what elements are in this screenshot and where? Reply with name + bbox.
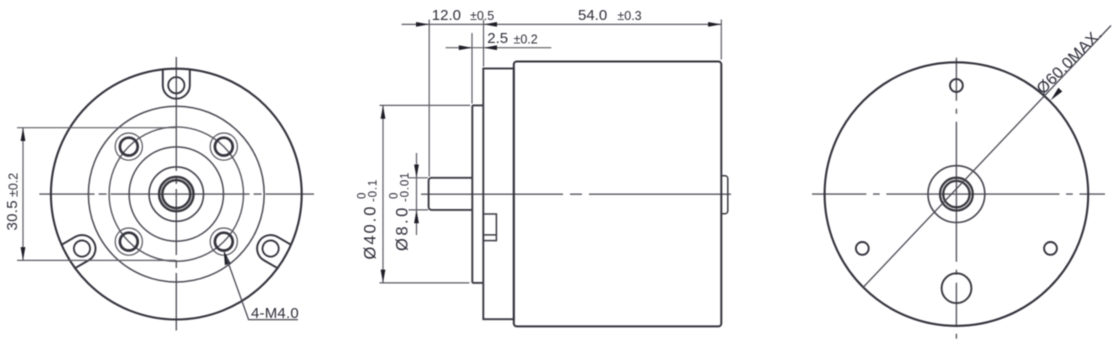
svg-text:4-M4.0: 4-M4.0 [251,305,299,322]
body rectangle [514,62,722,327]
dimension line 2.5 [446,47,552,49]
dimension 30.5 extension line top [17,127,176,129]
horizontal centerline [421,193,733,195]
shaft outer circle [159,177,193,211]
arrow down boss bottom [381,270,386,283]
svg-text:12.0: 12.0 [432,7,461,24]
shaft [429,178,473,210]
ext line boss top [380,104,471,106]
boss bottom edge [472,282,483,284]
rear hole lower-left [856,242,869,255]
top dimension line 12.0 / 54.0 [402,23,722,25]
rear bump [721,176,728,214]
svg-text:30.5: 30.5 [4,200,21,230]
label Ø8.0 0/-0.01 [389,172,412,251]
label 30.5 ±0.2 [4,173,21,231]
arrow left at flange face [484,22,497,27]
horizontal centerline [39,193,314,195]
rear big hole bottom [942,273,972,303]
Ø60 arrowhead [1051,88,1063,100]
arrow right at shaft tip [416,22,429,27]
arrow left at flange face 2.5 [484,45,497,50]
bolt circle [109,127,243,261]
arrow down [21,247,26,260]
body circle [88,106,264,282]
svg-text:-0.1: -0.1 [368,179,380,202]
svg-text:-0.01: -0.01 [400,172,412,202]
M4 hole bottom-right [210,228,237,255]
M4 hole bottom-left [115,228,142,255]
M4 hole top-right [210,133,237,160]
outer flange circle [51,69,302,320]
svg-text:Ø60.0MAX.: Ø60.0MAX. [1034,26,1106,98]
arrow right at body rear [708,22,721,27]
rear hole lower-right [1044,242,1057,255]
vertical centerline [955,58,957,339]
dimension 30.5 line [22,128,24,261]
svg-text:Ø40.0: Ø40.0 [362,205,380,260]
svg-text:Ø8.0: Ø8.0 [394,205,412,251]
extension line flange face [483,20,485,67]
mounting slot lower-left [252,230,291,268]
leader arrow to M4 hole [224,250,231,265]
label Ø60.0MAX. [1034,26,1106,98]
arrow right at boss face [459,45,472,50]
ext line shaft top [409,177,429,179]
svg-text:2.5: 2.5 [487,30,508,47]
mounting slot lower-right [61,230,100,268]
shaft outer circle rear [940,178,973,211]
label Ø40.0 0/-0.1 [357,179,380,260]
boss circle [129,147,223,241]
M4 hole top-left [115,133,142,160]
boss face line [471,105,473,283]
vertical centerline [175,57,177,331]
extension line body rear [720,20,722,60]
ext line shaft bottom [409,209,429,211]
leader line [227,258,299,320]
arrow up boss top [381,105,386,118]
arrow down to shaft top [414,165,419,178]
dimension Ø8.0 line [416,153,418,235]
svg-text:±0.2: ±0.2 [7,173,21,197]
bearing boss circle [928,166,985,223]
svg-text:54.0: 54.0 [578,7,607,24]
arrow up to shaft bottom [414,210,419,223]
ext line boss bottom [380,282,470,284]
notch inner line [483,234,496,236]
shaft inner circle rear [943,181,969,207]
extension line boss face [471,33,473,104]
extension line shaft tip [428,20,430,177]
svg-text:±0.3: ±0.3 [617,9,641,23]
boss top edge [472,104,483,106]
horizontal centerline [812,193,1105,195]
shaft inner circle [162,180,190,208]
arrow up [21,128,26,141]
rear hole top [950,79,963,92]
flange rectangle [483,69,514,320]
svg-text:±0.2: ±0.2 [514,33,538,47]
notch on flange [483,214,496,241]
outer housing circle [825,62,1089,326]
dimension Ø40.0 line [382,105,384,283]
Ø60 diagonal dimension line [863,26,1111,288]
svg-text:±0.5: ±0.5 [470,9,494,23]
mounting slot top [163,69,190,98]
dimension 30.5 extension line bottom [17,259,176,261]
shaft boss circle [149,167,203,221]
